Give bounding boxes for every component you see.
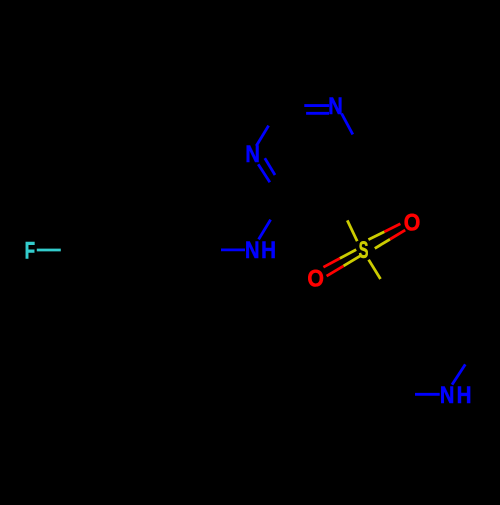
- svg-text:H: H: [261, 236, 276, 263]
- bond C5-S (yellow half at S): [347, 220, 357, 241]
- bond N1-C6 (blue half at N1): [342, 114, 353, 135]
- atom O1 sulfonyl top-right: [404, 208, 421, 236]
- svg-text:N: N: [440, 381, 455, 408]
- bond S=O2 line a red half: [323, 258, 339, 267]
- bond S=O2 line a yellow half: [340, 250, 356, 259]
- bond C4'-F (teal half at F): [37, 249, 61, 252]
- svg-text:F: F: [25, 238, 36, 265]
- svg-text:S: S: [359, 237, 369, 264]
- svg-text:O: O: [307, 264, 324, 292]
- atom N3 pyrimidine: [245, 140, 260, 167]
- atom N piperidine (N of NH): [440, 381, 455, 408]
- bond S=O2 line b yellow half: [344, 256, 361, 266]
- atom O2 sulfonyl bottom-left: [307, 264, 324, 292]
- bond S=O1 line b yellow half: [375, 239, 390, 248]
- bond N3=C4 main line (blue half at N3): [258, 164, 270, 182]
- svg-text:N: N: [245, 140, 260, 167]
- bond C2=N1 inner line (blue half at N1): [306, 112, 329, 115]
- svg-text:N: N: [245, 236, 260, 263]
- bond C4-N amine (blue half at N): [259, 220, 271, 240]
- bond N3=C4 inner line (blue half at N3): [265, 158, 275, 175]
- bond S-C4'' piperidinyl (yellow half at S): [369, 260, 381, 279]
- bond S=O2 line b red half: [327, 266, 344, 276]
- bond S=O1 line a yellow half: [368, 232, 384, 240]
- bond C1'-N amine (blue half at N): [221, 248, 245, 251]
- bond C2''-N piperidine (blue half at N): [415, 393, 440, 396]
- atom N amine (N of NH): [245, 236, 260, 263]
- svg-text:O: O: [404, 208, 421, 236]
- svg-text:N: N: [328, 92, 343, 119]
- atom H of piperidine NH: [457, 381, 472, 408]
- bond S=O1 line a red half: [384, 224, 400, 232]
- bond S=O1 line b red half: [390, 230, 405, 239]
- atom H of amine NH: [261, 236, 276, 263]
- atom F: [25, 238, 36, 265]
- atom N1 pyrimidine: [328, 92, 343, 119]
- bond C2=N1 main line (blue half at N1): [304, 104, 329, 107]
- bond C6''-N piperidine (blue half at N): [452, 364, 465, 384]
- atom S sulfonyl: [359, 237, 369, 264]
- bond N3-C2 (blue half at N3): [256, 126, 268, 146]
- svg-text:H: H: [457, 381, 472, 408]
